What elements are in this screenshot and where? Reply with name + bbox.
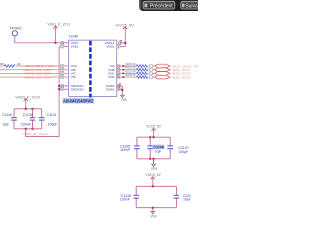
wire TP400 stem xyxy=(14,36,16,43)
svg-text:TP400: TP400 xyxy=(9,26,21,30)
svg-text:Précédent: Précédent xyxy=(150,4,173,10)
capacitor C1112 xyxy=(174,186,180,207)
wire bank3 VSS stub xyxy=(152,208,154,212)
svg-text:E24_VCO: E24_VCO xyxy=(173,75,191,79)
wire GND/ISO pin 15 stub xyxy=(59,85,69,87)
wire VCC5 bank power stem xyxy=(153,129,155,137)
power flag VISO_E_VCO top xyxy=(47,22,70,28)
power tick on VDDL1 stub xyxy=(120,41,123,45)
svg-text:A6: A6 xyxy=(17,62,21,66)
svg-text:C1130: C1130 xyxy=(23,113,33,117)
svg-text:16: 16 xyxy=(61,41,64,45)
wire GND/ISO pin 9 stub xyxy=(59,88,69,90)
power flag VDD3_3V xyxy=(145,173,161,179)
junction VOC row xyxy=(122,73,124,75)
svg-text:100µF: 100µF xyxy=(178,150,188,154)
svg-text:R1150 0R: R1150 0R xyxy=(125,63,136,66)
capacitor C1130 xyxy=(30,109,36,129)
left signal wire CLK_EDC_VCO xyxy=(0,65,69,67)
svg-text:C1101: C1101 xyxy=(47,113,57,117)
ground symbol VSS (bank3) xyxy=(150,211,155,214)
junction bank1 top rail power stem xyxy=(25,108,27,110)
capacitor C1107 xyxy=(167,137,173,159)
wire bank2 VSS stub xyxy=(153,159,155,164)
junction bank2 bottom rail C1106 xyxy=(149,158,151,160)
junction bank3 bottom rail xyxy=(152,207,154,209)
svg-text:VDD3_3V: VDD3_3V xyxy=(145,173,161,177)
svg-text:10µF: 10µF xyxy=(2,122,9,126)
svg-text:ADUM4154BRWZ: ADUM4154BRWZ xyxy=(63,99,94,104)
junction bank1 bottom rail stub xyxy=(25,128,27,130)
part number highlight ADUM4154BRWZ xyxy=(63,98,95,104)
svg-text:DR: DR xyxy=(0,62,4,66)
wire bank3 top rail xyxy=(136,185,176,187)
chip left pin names xyxy=(71,41,85,91)
wire VDDL1 pin 1 stub xyxy=(117,42,126,44)
wire VCC5_5V vertical to VDDL pins xyxy=(124,28,126,47)
junction bank1 top rail C1130 xyxy=(32,108,34,110)
svg-text:10µF: 10µF xyxy=(155,150,162,154)
resistor R1151 xyxy=(136,68,147,71)
junction bank1 bottom rail C1130 xyxy=(32,128,34,130)
wire VIA row to R1150 xyxy=(117,65,155,67)
capacitor C1101 xyxy=(39,109,45,129)
right pin numbers xyxy=(117,41,120,91)
junction GND/ISO lower xyxy=(58,88,60,90)
resistor R1150 xyxy=(136,65,147,68)
left pin number boxes xyxy=(60,41,63,90)
junction bank2 bottom rail VSS stub xyxy=(153,158,155,160)
isolation barrier (dashed) xyxy=(89,41,92,98)
svg-text:#ENC_DI_VCO: #ENC_DI_VCO xyxy=(24,75,52,79)
power flag VCC5_5V (bank) xyxy=(146,125,162,131)
wire bank2 top rail xyxy=(137,136,170,138)
resistor R1153 xyxy=(136,76,147,79)
left pin numbers xyxy=(61,41,64,91)
svg-text:Suivan: Suivan xyxy=(185,4,198,10)
svg-text:VSS: VSS xyxy=(151,167,157,171)
junction VOB row xyxy=(122,69,124,71)
svg-text:GND1: GND1 xyxy=(106,87,115,91)
left signal wire row4 xyxy=(0,76,69,78)
junction GND1 lower stub xyxy=(121,89,123,91)
svg-text:C1140: C1140 xyxy=(2,113,12,117)
resistor series on row1 xyxy=(4,65,15,68)
svg-text:100pF: 100pF xyxy=(48,122,57,126)
wire VOB row to R1151 xyxy=(117,69,155,71)
resistor R1152 xyxy=(136,72,147,75)
ground symbol VSS (chip) xyxy=(120,95,125,98)
wire VSS_E_VCO horizontal xyxy=(26,136,59,138)
junction bank2 top rail C1106 xyxy=(149,136,151,138)
button Précédent xyxy=(143,1,175,9)
power flag VISO_E_VCO (bank) xyxy=(15,95,40,101)
off-page connector E24_VCO xyxy=(155,75,170,79)
wire VISO_E_VCO power stem xyxy=(54,27,56,43)
viewer toolbar bar xyxy=(139,0,198,11)
capacitor C1106 xyxy=(147,137,153,159)
ground symbol VSS (bank2) xyxy=(151,164,156,167)
power tick on GND1 stub xyxy=(119,84,122,88)
right pin number boxes xyxy=(117,41,120,90)
junction VDDL1 / VCC5 wire xyxy=(124,42,126,44)
svg-text:R1152 0R: R1152 0R xyxy=(125,70,136,73)
capacitor C1110 xyxy=(133,186,139,207)
junction VIA row xyxy=(122,65,124,67)
junction VISO wire / power stem xyxy=(54,42,56,44)
svg-text:R1153 0R: R1153 0R xyxy=(125,74,136,77)
svg-text:VSS: VSS xyxy=(121,98,127,102)
wire GND1 pin 7 stub xyxy=(117,88,123,90)
svg-text:100nF: 100nF xyxy=(120,148,130,152)
ref label C1106 highlighted xyxy=(153,145,165,150)
junction VOD row xyxy=(122,76,124,78)
junction GND/ISO upper xyxy=(58,85,60,87)
svg-text:100nF: 100nF xyxy=(120,197,130,201)
junction bank2 top rail power stem xyxy=(153,136,155,138)
wire bank1 stub down to VSS_E_VCO xyxy=(25,129,27,137)
svg-text:VID: VID xyxy=(71,75,77,79)
wire VSEL pin 2 stub xyxy=(59,46,69,48)
svg-text:VISO_E_VCO: VISO_E_VCO xyxy=(15,95,40,99)
button Suivant xyxy=(181,1,203,9)
capacitor C1140 xyxy=(11,109,17,129)
wire GND1 vertical to VSS xyxy=(121,86,123,95)
left signal wire row3 xyxy=(0,72,69,74)
svg-text:U140: U140 xyxy=(69,34,78,38)
off-page connector E23_VCO xyxy=(155,72,170,76)
wire VISO bank power stem xyxy=(25,99,27,109)
svg-text:100µF: 100µF xyxy=(183,198,190,202)
capacitor C1105 xyxy=(134,137,140,159)
power flag VCC5_5V top right xyxy=(115,23,135,29)
svg-text:VSEL: VSEL xyxy=(71,45,79,49)
svg-text:VSS_E_VCO: VSS_E_VCO xyxy=(23,132,49,136)
wire bank1 top rail xyxy=(14,108,42,110)
svg-text:R1151 0R: R1151 0R xyxy=(125,67,136,70)
wire VDD3 power stem xyxy=(152,178,154,187)
wire VOC row to R1152 xyxy=(117,72,155,74)
wire GND1 pin 10 stub xyxy=(117,85,123,87)
wire bank1 bottom rail xyxy=(14,128,42,130)
testpoint TP400 xyxy=(9,26,21,36)
off-page connector E22_VCO xyxy=(155,68,170,72)
chip right pin names xyxy=(105,41,116,91)
junction bank3 top rail xyxy=(152,185,154,187)
svg-text:VOD: VOD xyxy=(108,75,115,79)
svg-text:VDDL: VDDL xyxy=(106,45,115,49)
wire TP400 to VISO pin 16 xyxy=(15,42,69,44)
wire bank2 bottom rail xyxy=(137,158,170,160)
svg-text:GND/ISO: GND/ISO xyxy=(71,87,85,91)
svg-text:VISO_E_VCO: VISO_E_VCO xyxy=(47,22,70,26)
svg-text:100nF: 100nF xyxy=(21,122,31,126)
wire VDDL pin 8 stub xyxy=(117,46,126,48)
svg-text:VSS: VSS xyxy=(150,214,156,218)
wire VSEL to isolated-ground vertical xyxy=(58,47,60,137)
off-page connector CLK_VCO_TP xyxy=(155,64,170,68)
wire bank3 bottom rail xyxy=(136,207,176,209)
left signal wire row2 xyxy=(0,69,69,71)
chip U140 body xyxy=(69,40,117,96)
resistor pin boxes column xyxy=(150,65,153,79)
wire VOD row to R1153 xyxy=(117,76,155,78)
